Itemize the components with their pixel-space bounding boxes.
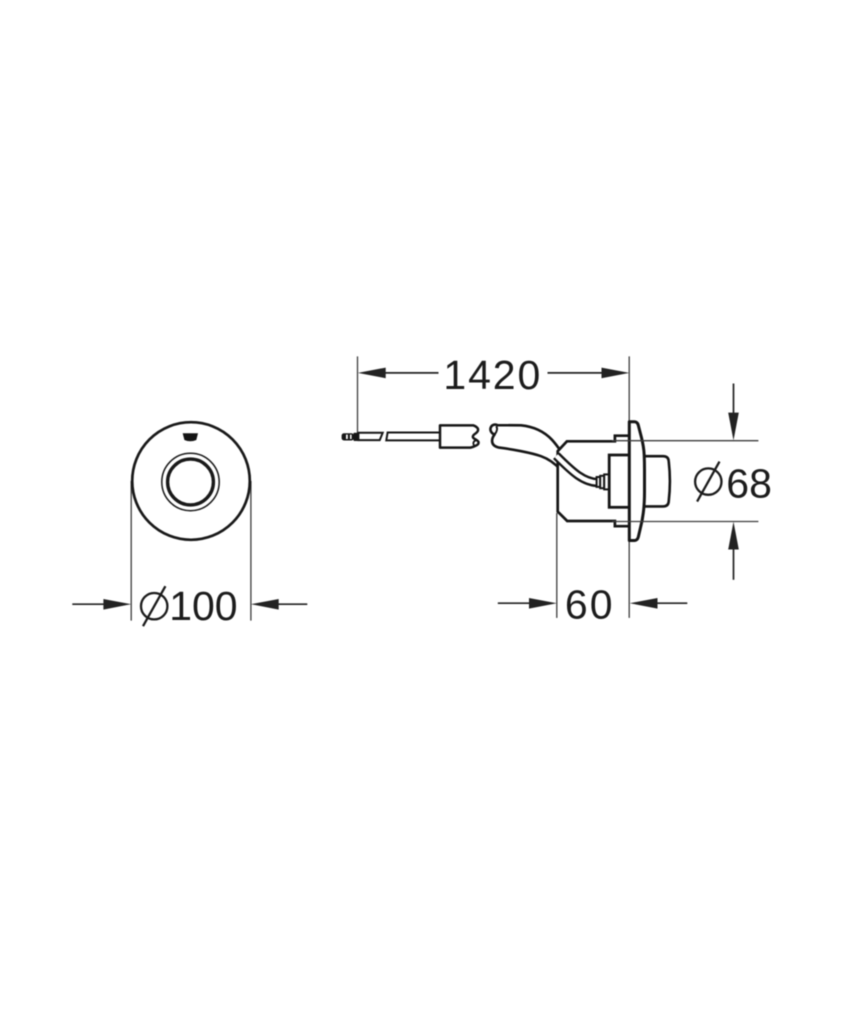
svg-text:60: 60 (565, 581, 615, 627)
svg-text:100: 100 (169, 583, 237, 629)
svg-text:68: 68 (726, 460, 772, 506)
svg-text:1420: 1420 (443, 352, 542, 398)
